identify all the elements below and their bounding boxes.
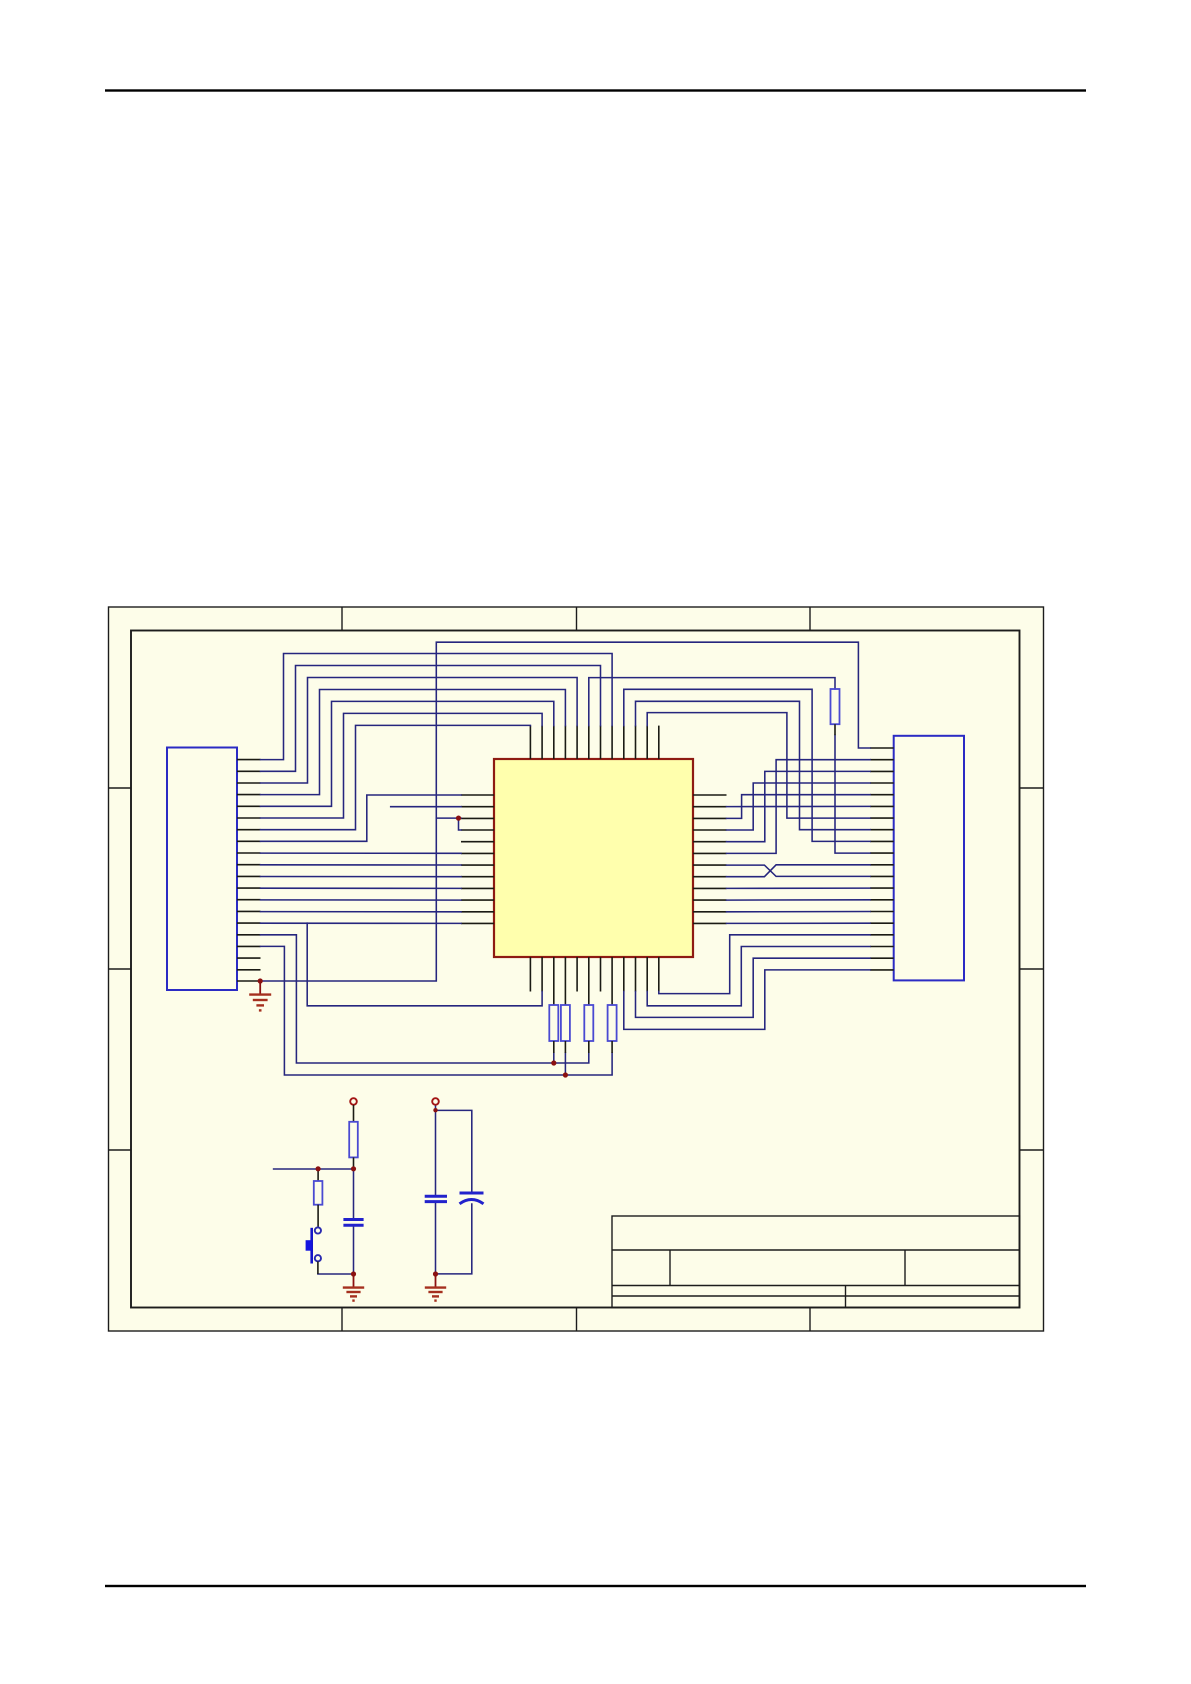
IC U1 bottom pins bbox=[530, 957, 658, 1005]
wire capacitor C1 bottom to ground node bbox=[353, 1227, 355, 1274]
connector J2 pins bbox=[870, 748, 894, 970]
resistor R4 bbox=[584, 1005, 593, 1053]
terminal P1 bbox=[350, 1098, 357, 1105]
ground G3 bbox=[425, 1274, 446, 1301]
IC U1 right pins bbox=[693, 795, 727, 923]
IC U1 bbox=[494, 759, 693, 957]
wire U1 right pin3 to J2 pin5 bbox=[727, 795, 871, 819]
wire U1 bottom pin12 to J2 pin17 bbox=[659, 935, 870, 994]
wire U1 right pin12 to J2 pin16 bbox=[727, 922, 871, 924]
resistor R6 bbox=[349, 1105, 358, 1169]
wire node C to capacitor C3 top bbox=[436, 1110, 472, 1191]
wire U1 top pin9 to J2 pin9 bbox=[624, 689, 870, 841]
wire U1 right pin7 to J2 pin12 crossover bbox=[727, 865, 871, 876]
wire U1 top pin6 to resistor R1 top bbox=[589, 678, 835, 726]
wire J1 pin10 to U1 left pin7 bbox=[261, 864, 462, 866]
capacitor C3 polarized bbox=[460, 1193, 484, 1204]
junction resistor R3 row bbox=[563, 1072, 568, 1077]
connector J1 pins bbox=[237, 760, 261, 981]
wire J1 pin15 branch to U1 bottom pin2 bbox=[307, 923, 542, 1006]
wire terminal P2 to node C bbox=[435, 1105, 437, 1111]
wire capacitor C2 bottom to ground node bbox=[435, 1204, 437, 1275]
wire U1 bottom pin9 to J2 pin20 bbox=[624, 970, 870, 1030]
IC U1 left pins bbox=[461, 795, 494, 923]
wire J1 pin4 to U1 top pin4 bbox=[261, 690, 566, 795]
resistor R7 bbox=[314, 1169, 323, 1227]
resistor R5 bbox=[608, 1005, 617, 1053]
junction ground node G2 bbox=[351, 1271, 356, 1276]
wire J1 pin20 to J2 pin1 long wrap bbox=[260, 642, 870, 981]
wire U1 top pin11 to J2 pin7 bbox=[647, 713, 870, 819]
terminal P2 bbox=[432, 1098, 439, 1105]
wire J1 pin9 to U1 left pin6 bbox=[261, 852, 462, 854]
wire capacitor C3 bottom to ground node bbox=[436, 1204, 472, 1274]
wire J1 pin16 to resistors R2 R4 bottoms bbox=[261, 935, 589, 1063]
title block bbox=[612, 1216, 1020, 1308]
wire J1 pin8 to U1 left pin1 bbox=[261, 795, 462, 841]
wire J1 pin6 to U1 top pin2 bbox=[261, 713, 543, 818]
wire J1 pin14 to U1 left pin11 bbox=[261, 911, 462, 913]
page header rule bbox=[105, 89, 1086, 91]
wire open net at node B bbox=[274, 1168, 354, 1170]
wire resistor R2 bottom tie bbox=[553, 1053, 555, 1063]
wire J1 pin13 to U1 left pin10 bbox=[261, 899, 462, 901]
wire U1 bottom pin11 to J2 pin18 bbox=[647, 947, 870, 1006]
wire J1 pin15 to U1 left pin12 bbox=[261, 922, 462, 924]
wire node A to U1 left pin3 bbox=[436, 817, 461, 819]
resistor R2 bbox=[549, 1005, 558, 1053]
junction node B right bbox=[351, 1166, 356, 1171]
resistor R3 bbox=[561, 1005, 570, 1053]
wire node C to capacitor C2 top bbox=[435, 1110, 437, 1194]
wire U1 right pin6 to J2 pin2 bbox=[727, 760, 871, 854]
wire J1 pin3 to U1 top pin5 bbox=[261, 678, 578, 784]
wire J1 pin7 to U1 top pin1 bbox=[261, 725, 531, 829]
wire J1 pin17 to resistors R3 R5 bottoms bbox=[261, 946, 613, 1075]
wire switch SW1 bottom to ground node bbox=[318, 1273, 354, 1275]
wire stub U1 left pin2 bbox=[391, 806, 461, 808]
wire U1 right pin5 to J2 pin3 bbox=[727, 771, 871, 841]
wire U1 right pin8 to J2 pin11 crossover bbox=[727, 865, 871, 877]
wire resistor R1 bottom to J2 pin10 bbox=[835, 735, 870, 853]
capacitor C2 bbox=[425, 1196, 447, 1201]
wire J1 pin12 to U1 left pin9 bbox=[261, 887, 462, 889]
wire resistor R3 bottom tie bbox=[564, 1053, 566, 1075]
sheet background bbox=[108, 607, 1044, 1332]
wire J1 pin2 to U1 top pin7 bbox=[261, 666, 601, 772]
connector J2 bbox=[894, 736, 964, 981]
junction J1 pin20 ground node bbox=[258, 978, 263, 983]
junction ground node G3 bbox=[433, 1271, 438, 1276]
wire J1 pin5 to U1 top pin3 bbox=[261, 701, 554, 806]
IC U1 top pins bbox=[530, 726, 658, 759]
ground G1 bbox=[249, 981, 271, 1010]
ground G2 bbox=[343, 1274, 364, 1301]
switch SW1 bbox=[306, 1227, 321, 1274]
junction node B left bbox=[316, 1166, 321, 1171]
wire U1 top pin10 to J2 pin8 bbox=[636, 701, 871, 829]
wire J1 pin11 to U1 left pin8 bbox=[261, 876, 462, 878]
wire U1 right pin4 to J2 pin4 bbox=[727, 783, 871, 830]
connector J1 bbox=[167, 748, 237, 991]
junction node A bbox=[456, 816, 461, 821]
wire U1 right pin11 to J2 pin15 bbox=[727, 911, 871, 913]
junction resistor R2 row bbox=[551, 1060, 556, 1065]
wire U1 bottom pin10 to J2 pin19 bbox=[636, 958, 871, 1017]
resistor R1 bbox=[831, 689, 840, 735]
capacitor C1 bbox=[343, 1220, 363, 1226]
junction node C bbox=[433, 1108, 437, 1112]
wire J1 pin1 to U1 top pin8 bbox=[261, 654, 613, 760]
wire node B to capacitor C1 top bbox=[353, 1169, 355, 1218]
wire U1 right pin2 to J2 pin6 bbox=[727, 805, 871, 807]
wire node A branch to U1 left pin4 bbox=[459, 818, 462, 830]
wire U1 right pin10 to J2 pin14 bbox=[727, 899, 871, 901]
page footer rule bbox=[105, 1585, 1086, 1587]
wire U1 right pin9 to J2 pin13 bbox=[727, 887, 871, 889]
